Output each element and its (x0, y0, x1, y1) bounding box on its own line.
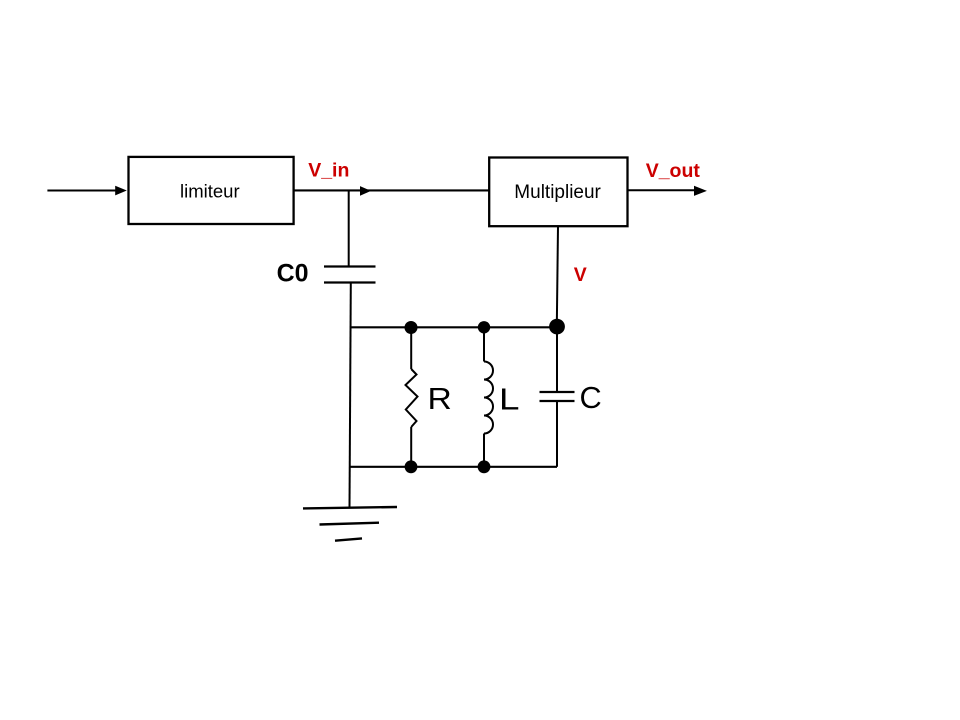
wire limiteur to Multiplieur (294, 189, 490, 191)
block Multiplieur (489, 158, 627, 227)
svg-text:V_out: V_out (646, 160, 701, 182)
capacitor C (540, 327, 575, 467)
arrowhead on wire at node V_in (360, 186, 371, 196)
wire tank bottom (350, 466, 558, 468)
resistor R (406, 327, 418, 467)
node dot L bottom (478, 460, 491, 473)
svg-text:Multiplieur: Multiplieur (514, 182, 601, 203)
svg-text:C0: C0 (277, 260, 309, 288)
output arrow V_out (628, 186, 707, 196)
ground (303, 507, 397, 541)
wire C0 to tank top / left rail down to ground (350, 283, 351, 508)
svg-text:V: V (574, 264, 587, 286)
node dot R top (405, 321, 418, 334)
svg-text:R: R (428, 381, 452, 416)
wire V_in node down to C0 (348, 190, 350, 266)
block limiteur (129, 157, 294, 224)
svg-text:limiteur: limiteur (180, 181, 240, 202)
node dot L top (478, 321, 490, 333)
svg-text:C: C (580, 380, 602, 415)
inductor L (484, 327, 493, 467)
svg-text:V_in: V_in (308, 160, 349, 182)
node dot V (big) (549, 319, 565, 335)
input arrow (47, 186, 126, 196)
node dot R bottom (405, 460, 418, 473)
wire tank top (350, 326, 557, 328)
svg-text:L: L (499, 381, 520, 416)
wire Multiplieur bottom to node V (557, 226, 558, 326)
capacitor C0 (324, 267, 376, 283)
